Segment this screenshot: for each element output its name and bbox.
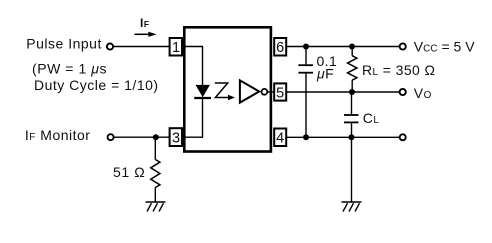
pin 1 box: [170, 38, 182, 56]
wire: LED cathode to pin 3 internal: [184, 99, 203, 137]
junction: Vo wire / RL / CL: [349, 89, 355, 95]
svg-text:51 Ω: 51 Ω: [113, 164, 145, 180]
svg-text:6: 6: [276, 40, 284, 56]
svg-text:4: 4: [276, 131, 284, 147]
ground symbol (left): [146, 202, 166, 212]
buffer amplifier (detector): [240, 80, 259, 102]
svg-text:VCC = 5 V: VCC = 5 V: [414, 38, 475, 54]
junction: Vcc wire / capacitor C1: [303, 44, 309, 50]
capacitor CL: [344, 92, 359, 137]
LED cathode bar: [194, 97, 211, 99]
terminal: Vcc: [400, 43, 406, 49]
capacitor C1 0.1uF: [298, 47, 313, 138]
LED (emitter diode): [196, 85, 209, 96]
junction: ground wire / CL / ground stub: [349, 134, 355, 140]
svg-text:Pulse Input: Pulse Input: [26, 36, 102, 52]
resistor R1 51 ohm zigzag: [151, 160, 160, 188]
optical coupling symbol (Z arrow): [215, 83, 229, 98]
wire: Pulse Input to pin 1: [114, 46, 170, 48]
wire: pin 5 to Vo terminal: [286, 91, 399, 93]
terminal: IF Monitor: [108, 134, 114, 140]
terminal: Vo: [400, 89, 406, 95]
IC package U1 outline: [184, 27, 271, 151]
pin 6 box: [274, 38, 286, 56]
wire: resistor R1 to ground: [154, 188, 156, 203]
wire: bubble to pin 5: [268, 91, 275, 93]
svg-text:(PW = 1 μs: (PW = 1 μs: [32, 61, 107, 77]
pin 5 box: [274, 83, 286, 100]
pin 3 box: [170, 128, 182, 146]
svg-text:IF: IF: [140, 16, 149, 30]
wire: pin 1 internal to LED anode: [184, 47, 203, 87]
junction: ground wire / capacitor C1: [303, 134, 309, 140]
svg-text:Duty Cycle = 1/10): Duty Cycle = 1/10): [34, 77, 159, 93]
junction: IF monitor / 51 ohm resistor: [153, 134, 159, 140]
resistor RL 350 ohm: [348, 47, 357, 93]
svg-text:μF: μF: [316, 66, 334, 82]
svg-text:1: 1: [172, 40, 180, 56]
ground symbol (right): [342, 202, 362, 212]
pin 4 box: [274, 129, 286, 147]
wire: pin 4 to output ground terminal: [286, 136, 399, 138]
svg-text:3: 3: [172, 130, 180, 146]
terminal: ground side (unlabeled): [400, 134, 406, 140]
wire: pin 6 to Vcc terminal: [286, 46, 399, 48]
wire: junction down to resistor R1: [154, 137, 156, 159]
svg-text:5: 5: [276, 85, 284, 101]
terminal: Pulse Input: [107, 43, 113, 49]
wire: IF Monitor to pin 3: [114, 136, 169, 138]
inverter output bubble: [262, 89, 268, 95]
wire: junction down to ground (right): [351, 137, 353, 202]
junction: Vcc wire / resistor RL: [349, 44, 355, 50]
IF current arrow: [135, 33, 151, 35]
